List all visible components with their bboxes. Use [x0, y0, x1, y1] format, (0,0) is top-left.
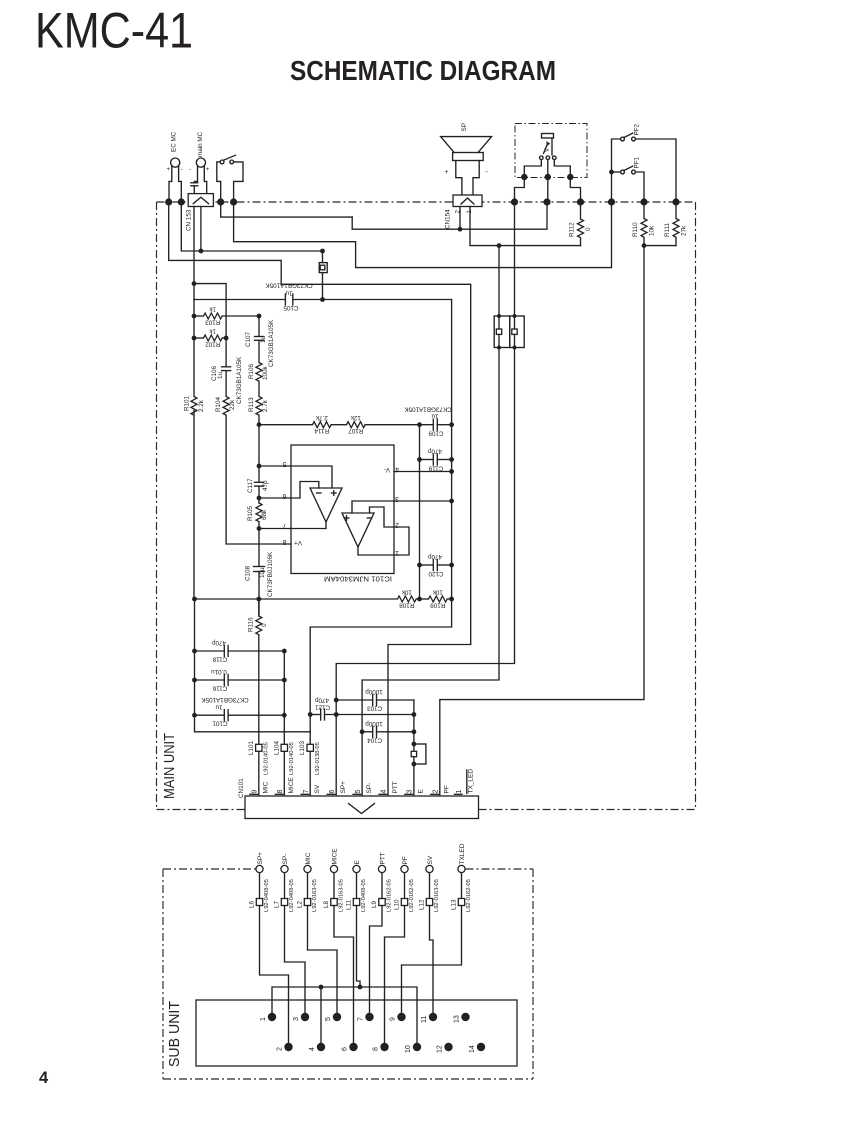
svg-text:L11: L11: [346, 899, 353, 910]
svg-text:6: 6: [283, 492, 287, 499]
svg-text:C105: C105: [283, 304, 299, 311]
svg-text:L13: L13: [451, 899, 458, 910]
svg-text:4: 4: [381, 790, 388, 794]
svg-text:10: 10: [405, 1045, 412, 1053]
svg-text:0.01u: 0.01u: [211, 668, 227, 675]
svg-text:R101: R101: [184, 395, 191, 411]
svg-text:9: 9: [390, 1017, 397, 1021]
svg-text:PTT: PTT: [392, 781, 399, 793]
svg-text:CN101: CN101: [238, 778, 245, 798]
svg-text:V+: V+: [294, 539, 302, 546]
svg-text:L92-0163-05: L92-0163-05: [312, 879, 318, 912]
svg-text:10k: 10k: [649, 225, 656, 236]
svg-text:C119: C119: [428, 465, 443, 472]
svg-text:MICE: MICE: [332, 848, 339, 865]
svg-text:10u: 10u: [259, 567, 266, 578]
svg-text:2.2k: 2.2k: [198, 399, 205, 412]
svg-text:5: 5: [283, 460, 287, 467]
svg-text:11: 11: [421, 1016, 428, 1023]
svg-text:R102: R102: [205, 341, 221, 348]
svg-text:6: 6: [329, 790, 336, 794]
svg-text:L92-0140-05: L92-0140-05: [289, 742, 295, 775]
svg-text:SUB UNIT: SUB UNIT: [166, 1001, 183, 1067]
svg-text:CN 153: CN 153: [186, 209, 193, 231]
svg-text:L92-0138-05: L92-0138-05: [315, 742, 321, 775]
svg-text:L103: L103: [299, 740, 306, 755]
svg-text:-: -: [486, 169, 489, 176]
svg-text:1: 1: [395, 549, 399, 556]
svg-text:R108: R108: [399, 602, 415, 609]
svg-text:470p: 470p: [428, 553, 443, 560]
svg-text:CK73GB1A105K: CK73GB1A105K: [265, 282, 313, 289]
svg-text:L12: L12: [419, 899, 426, 910]
svg-text:7: 7: [358, 1017, 365, 1021]
svg-text:L8: L8: [323, 900, 330, 908]
svg-text:TX_LED: TX_LED: [467, 769, 474, 794]
svg-text:9: 9: [251, 790, 258, 794]
svg-text:CN154: CN154: [445, 209, 452, 229]
svg-text:L92-0162-05: L92-0162-05: [387, 879, 393, 912]
svg-text:2: 2: [433, 790, 440, 794]
svg-text:C104: C104: [367, 737, 383, 744]
svg-text:C103: C103: [367, 705, 383, 712]
svg-text:2.7k: 2.7k: [315, 414, 328, 421]
svg-text:L92-0408-05: L92-0408-05: [264, 879, 270, 912]
svg-text:6: 6: [342, 1047, 349, 1051]
svg-text:TXLED: TXLED: [459, 843, 466, 864]
svg-text:27k: 27k: [681, 225, 688, 236]
svg-text:L92-0162-05: L92-0162-05: [466, 879, 472, 912]
svg-text:SV: SV: [314, 784, 321, 793]
svg-text:R112: R112: [569, 222, 576, 237]
svg-text:V-: V-: [384, 466, 390, 473]
svg-text:PF: PF: [402, 856, 409, 864]
svg-text:MIC: MIC: [262, 781, 269, 793]
svg-text:CK73FB0J106K: CK73FB0J106K: [267, 551, 274, 597]
svg-text:4: 4: [39, 1069, 49, 1087]
svg-text:R105: R105: [247, 505, 254, 521]
svg-text:L92-0163-05: L92-0163-05: [434, 879, 440, 912]
svg-text:3: 3: [293, 1017, 300, 1021]
svg-text:CK73GB1A105K: CK73GB1A105K: [404, 406, 452, 413]
svg-text:C107: C107: [245, 331, 252, 347]
svg-text:1: 1: [456, 790, 463, 794]
svg-text:SV: SV: [427, 855, 434, 864]
svg-text:SP-: SP-: [282, 854, 289, 865]
svg-text:L92-0140-05: L92-0140-05: [264, 742, 270, 775]
svg-text:PF2: PF2: [634, 123, 641, 135]
svg-text:C101: C101: [212, 720, 228, 727]
svg-text:CK73GB1A105K: CK73GB1A105K: [268, 319, 275, 367]
svg-text:E: E: [354, 860, 361, 865]
svg-text:C109: C109: [428, 430, 444, 437]
svg-text:3: 3: [395, 495, 399, 502]
svg-text:3: 3: [407, 790, 414, 794]
svg-text:L9: L9: [371, 900, 378, 908]
svg-text:L104: L104: [273, 740, 280, 755]
svg-text:PTT: PTT: [380, 852, 387, 864]
svg-text:1u: 1u: [260, 335, 267, 343]
svg-text:1: 1: [260, 1017, 267, 1021]
svg-text:470p: 470p: [428, 448, 443, 455]
svg-text:7: 7: [303, 790, 310, 794]
svg-text:C118: C118: [212, 656, 227, 663]
svg-text:C116: C116: [212, 685, 227, 692]
svg-text:L7: L7: [274, 900, 281, 908]
svg-text:R110: R110: [632, 222, 639, 237]
svg-text:R103: R103: [205, 319, 221, 326]
svg-text:1k: 1k: [209, 328, 217, 335]
svg-text:8: 8: [373, 1047, 380, 1051]
svg-text:1u: 1u: [215, 704, 223, 711]
svg-text:KMC-41: KMC-41: [35, 3, 193, 59]
svg-text:-: -: [181, 167, 183, 173]
svg-text:C117: C117: [247, 478, 254, 493]
svg-text:R116: R116: [248, 617, 255, 632]
svg-text:CK73GB1A105K: CK73GB1A105K: [236, 356, 243, 404]
svg-text:R111: R111: [664, 222, 671, 237]
svg-text:1000p: 1000p: [365, 688, 383, 695]
svg-text:8: 8: [283, 538, 287, 545]
svg-text:4: 4: [309, 1047, 316, 1051]
svg-text:CK73GB1A105K: CK73GB1A105K: [201, 696, 249, 703]
svg-text:main MC: main MC: [197, 131, 204, 157]
svg-text:+: +: [445, 169, 449, 176]
svg-text:E: E: [418, 789, 425, 794]
svg-text:L101: L101: [248, 740, 255, 755]
svg-text:10k: 10k: [401, 589, 412, 596]
svg-text:PF1: PF1: [634, 156, 641, 168]
svg-text:22k: 22k: [229, 399, 236, 410]
svg-text:MIC: MIC: [305, 852, 312, 864]
svg-text:PF: PF: [444, 785, 451, 793]
svg-text:2: 2: [395, 521, 399, 528]
svg-text:8: 8: [277, 790, 284, 794]
svg-text:SP+: SP+: [257, 852, 264, 865]
svg-text:MICE: MICE: [288, 777, 295, 794]
svg-text:13: 13: [454, 1015, 461, 1023]
svg-text:5: 5: [355, 790, 362, 794]
svg-text:5: 5: [325, 1017, 332, 1021]
svg-text:1u: 1u: [285, 290, 293, 297]
svg-text:C108: C108: [245, 565, 252, 581]
svg-text:L92-0163-05: L92-0163-05: [339, 879, 345, 912]
svg-text:12: 12: [437, 1045, 444, 1053]
svg-text:100k: 100k: [262, 365, 269, 380]
svg-text:L6: L6: [249, 900, 256, 908]
svg-text:R114: R114: [314, 427, 329, 434]
svg-text:-: -: [189, 167, 191, 173]
svg-text:2: 2: [277, 1047, 284, 1051]
svg-text:68k: 68k: [261, 509, 268, 520]
svg-text:0: 0: [585, 227, 592, 231]
svg-text:47p: 47p: [262, 480, 269, 491]
svg-text:1u: 1u: [217, 371, 224, 379]
svg-text:1k: 1k: [209, 306, 217, 313]
svg-text:L92-0162-05: L92-0162-05: [409, 879, 415, 912]
svg-text:SP+: SP+: [340, 781, 347, 794]
svg-text:V: V: [545, 148, 551, 152]
svg-text:1000p: 1000p: [365, 720, 383, 727]
svg-text:12k: 12k: [350, 414, 361, 421]
svg-text:7: 7: [283, 522, 287, 529]
svg-text:C120: C120: [428, 570, 444, 577]
svg-text:EC MC: EC MC: [171, 131, 178, 152]
svg-text:14: 14: [469, 1045, 476, 1053]
svg-text:1u: 1u: [431, 413, 439, 420]
svg-text:L10: L10: [394, 899, 401, 910]
svg-text:R107: R107: [348, 427, 364, 434]
svg-text:SP-: SP-: [366, 783, 373, 794]
svg-text:SP: SP: [461, 123, 468, 131]
svg-text:R113: R113: [248, 397, 255, 412]
svg-text:MAIN UNIT: MAIN UNIT: [161, 733, 178, 799]
svg-text:2.7k: 2.7k: [262, 399, 269, 412]
svg-text:L92-0408-05: L92-0408-05: [361, 879, 367, 912]
svg-text:R109: R109: [430, 602, 446, 609]
svg-text:L2: L2: [297, 900, 304, 908]
svg-text:4: 4: [395, 466, 399, 473]
svg-text:IC101 NJM3404AM: IC101 NJM3404AM: [324, 575, 392, 582]
svg-text:+: +: [206, 167, 210, 173]
svg-text:R106: R106: [248, 363, 255, 379]
svg-text:0: 0: [261, 623, 268, 627]
svg-text:SCHEMATIC DIAGRAM: SCHEMATIC DIAGRAM: [290, 55, 556, 86]
svg-text:470p: 470p: [212, 639, 227, 646]
svg-text:10k: 10k: [432, 589, 443, 596]
svg-text:470p: 470p: [315, 697, 330, 704]
svg-text:R104: R104: [215, 396, 222, 412]
svg-text:C121: C121: [315, 704, 331, 711]
svg-text:L92-0408-05: L92-0408-05: [289, 879, 295, 912]
svg-text:+: +: [167, 167, 171, 173]
